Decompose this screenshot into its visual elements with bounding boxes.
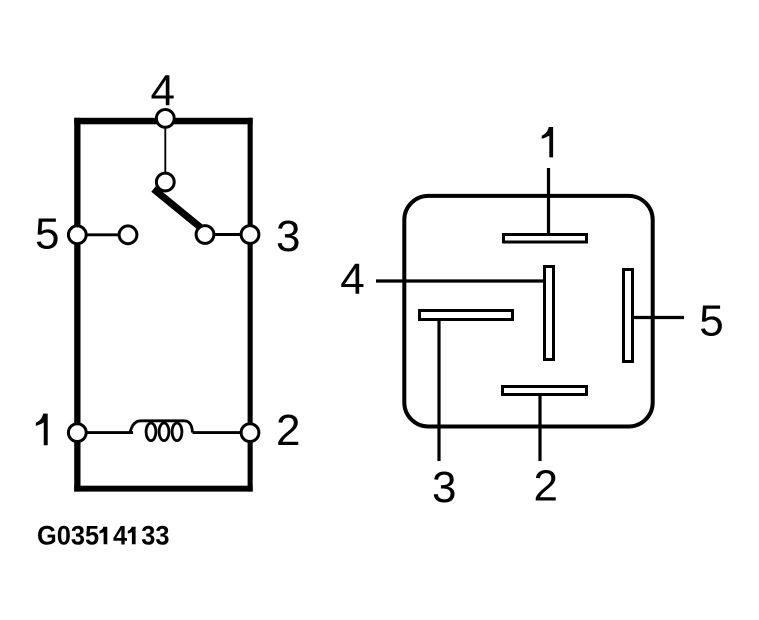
terminal blade 2 xyxy=(503,387,587,395)
switch arm (movable contact from pin 4) xyxy=(154,189,204,230)
node pin 2 terminal xyxy=(241,424,259,442)
lead wire to terminal 4 xyxy=(376,279,546,282)
lead wire to terminal 3 xyxy=(437,317,440,461)
terminal blade 1 xyxy=(504,235,587,243)
svg-text:5: 5 xyxy=(699,296,723,345)
node pin 3 terminal xyxy=(241,226,259,244)
terminal blade 5 xyxy=(624,270,633,362)
svg-text:2: 2 xyxy=(276,406,300,455)
lead wire to terminal 1 xyxy=(547,168,550,236)
terminal blade 3 xyxy=(420,311,513,320)
node pin 1 terminal xyxy=(68,424,86,442)
svg-text:5: 5 xyxy=(35,209,59,258)
wire: pin 4 stem to pivot xyxy=(164,126,166,174)
wire: pin 1 to coil xyxy=(77,431,133,434)
relay body outline: left edge xyxy=(74,118,80,492)
svg-text:4: 4 xyxy=(340,255,364,304)
svg-text:3: 3 xyxy=(276,212,300,261)
node pin 5 terminal xyxy=(68,226,86,244)
lead wire to terminal 2 xyxy=(538,392,541,461)
node arm moving contact xyxy=(196,226,214,244)
node switch pivot xyxy=(156,173,174,191)
svg-text:3: 3 xyxy=(432,463,456,512)
svg-text:33: 33 xyxy=(141,522,169,551)
svg-text:G035: G035 xyxy=(37,522,99,551)
wire: coil to pin 2 xyxy=(193,431,251,434)
wire: pin 5 to normally-open contact xyxy=(77,233,128,236)
node pin 4 terminal xyxy=(156,110,174,128)
pin label 1 (schematic) xyxy=(36,414,48,446)
wire: arm contact to pin 3 xyxy=(205,233,250,236)
lead wire to terminal 5 xyxy=(630,316,684,319)
relay body outline: top edge xyxy=(74,118,253,125)
pin label 1 (pinout) xyxy=(542,127,553,157)
relay body outline: bottom edge xyxy=(74,486,253,492)
svg-text:4: 4 xyxy=(151,67,175,116)
svg-text:4: 4 xyxy=(113,522,128,551)
relay body outline: right edge xyxy=(248,118,253,492)
svg-text:2: 2 xyxy=(533,461,557,510)
relay connector body (right pinout view) xyxy=(404,196,652,427)
terminal blade 4 xyxy=(545,267,554,360)
figure id G03514133 xyxy=(37,522,170,551)
node open contact of pin 5 xyxy=(119,226,137,244)
coil L1 (relay winding between pins 1 and 2) xyxy=(130,421,193,433)
